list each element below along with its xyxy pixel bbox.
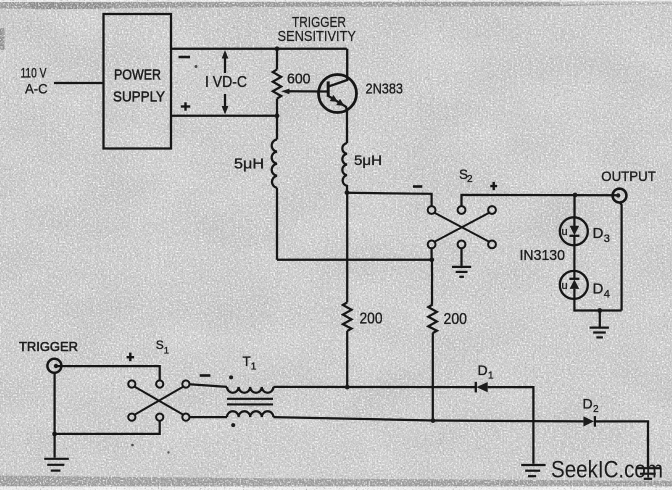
wire: S2 center to ground [460, 249, 462, 266]
label minus (S1 right) [200, 374, 211, 377]
svg-text:200: 200 [360, 311, 383, 328]
switch S1 crossover contacts [128, 380, 189, 420]
wire: negative output bus (top) [171, 48, 347, 50]
svg-text:1: 1 [251, 362, 257, 373]
potentiometer R 600 [273, 49, 281, 140]
label D3 [593, 225, 610, 245]
svg-text:D: D [593, 225, 604, 242]
svg-text:A-C: A-C [25, 82, 48, 97]
svg-text:3: 3 [604, 233, 610, 245]
svg-text:D: D [478, 362, 488, 378]
resistor R1 200 (left) [343, 193, 352, 388]
diode D1 [476, 382, 488, 393]
label D2 [583, 396, 600, 415]
svg-text:1: 1 [488, 371, 494, 382]
switch S2 crossover contacts [428, 206, 496, 248]
svg-text:D: D [583, 396, 593, 412]
stray ink speck [131, 444, 134, 447]
wire: D2 to ground leg [595, 421, 648, 467]
svg-text:OUTPUT: OUTPUT [601, 168, 656, 184]
wire: AC input to power supply [54, 82, 104, 84]
wire: S1 to T1 primary bottom [189, 416, 227, 418]
power supply box U-PS [104, 14, 172, 149]
bottom edge scan smudge [0, 476, 672, 488]
svg-text:110 V: 110 V [21, 66, 47, 81]
wire: D1 to ground leg [488, 387, 534, 464]
inductor L2 5uH (right) [342, 143, 347, 193]
transistor Q1 2N383 [319, 49, 357, 143]
terminal: TRIGGER input [47, 359, 61, 373]
transformer T1 secondary winding [227, 411, 273, 417]
resistor R2 200 (right) [428, 260, 437, 421]
label plus (S2 right) [490, 182, 497, 190]
ground (clipper) [590, 328, 609, 338]
terminal: OUTPUT [613, 189, 627, 203]
inductor L1 5uH (left) [272, 140, 277, 260]
wire: positive output bus (bottom) [171, 115, 277, 117]
svg-text:4: 4 [604, 288, 610, 300]
wire: S2 positive pole to output [462, 195, 619, 206]
node: pot top junction [275, 46, 280, 51]
svg-text:IN3130: IN3130 [520, 247, 566, 264]
label plus (PS bottom) [181, 102, 190, 110]
svg-text:5μH: 5μH [354, 152, 382, 168]
svg-text:TRIGGER: TRIGGER [19, 339, 78, 354]
wire: clipper branch upper [573, 195, 575, 217]
node: emitter bus junction [345, 190, 350, 195]
svg-text:S: S [156, 338, 164, 352]
label TRIGGER SENSITIVITY [278, 14, 357, 45]
svg-text:T: T [243, 354, 251, 369]
label D4 [593, 280, 610, 300]
wire: emitter bus to S2 [347, 193, 432, 207]
svg-text:5μH: 5μH [234, 157, 264, 173]
wire: trigger to S1 [56, 366, 160, 380]
svg-text:D: D [593, 280, 604, 297]
svg-text:2: 2 [467, 174, 473, 185]
1VD-C measurement arrow [222, 50, 229, 115]
ground (S2) [452, 267, 471, 277]
wire: T1 bottom bus [273, 417, 583, 421]
transformer T1 core [227, 399, 273, 405]
ground (trigger) [44, 459, 69, 471]
node: output bus junction [573, 193, 578, 198]
ground (D2) [636, 468, 660, 479]
node: left 200 junction [345, 385, 350, 390]
svg-text:u: u [562, 280, 568, 292]
svg-text:SENSITIVITY: SENSITIVITY [278, 28, 357, 45]
label D1 [478, 362, 495, 381]
svg-text:POWER: POWER [114, 68, 161, 84]
svg-text:u: u [562, 226, 568, 238]
wire: trigger terminal down [53, 373, 55, 458]
phase dot (bottom) [231, 423, 235, 427]
node: right 200 junction [431, 418, 436, 423]
node: S2 stub junction [429, 257, 434, 262]
svg-text:I VD-C: I VD-C [205, 74, 247, 91]
wire: T1 top to D1 [273, 386, 475, 388]
svg-text:SUPPLY: SUPPLY [113, 90, 165, 106]
left edge mark [0, 28, 5, 50]
wire: S2 lower-left stub [430, 249, 432, 260]
wire: trigger ground bus to S1 [55, 421, 160, 434]
label plus (S1) [127, 353, 134, 362]
diode D2 [583, 416, 595, 427]
top edge scan smudge [0, 0, 672, 2]
svg-text:1: 1 [164, 345, 169, 356]
wire: between D3 and D4 [573, 245, 575, 271]
label T1 [243, 354, 257, 373]
ground (D1) [521, 465, 545, 476]
label S2 [459, 167, 473, 185]
wire: output down leg [620, 202, 622, 310]
svg-text:200: 200 [444, 311, 468, 328]
label S1 [156, 338, 169, 356]
svg-text:2: 2 [593, 404, 599, 415]
svg-text:600: 600 [287, 71, 311, 88]
node: clipper ground junction [597, 308, 602, 313]
label minus (PS top) [179, 56, 191, 59]
svg-text:2N383: 2N383 [366, 81, 404, 98]
svg-text:SeekIC.com: SeekIC.com [551, 457, 663, 484]
pot wiper arrow to transistor base [281, 89, 328, 95]
transformer T1 primary winding [227, 387, 273, 393]
node: pot bottom junction [275, 113, 280, 118]
wire: S1 to T1 primary top [189, 384, 227, 387]
wire: clipper bottom [574, 299, 621, 311]
diode D3 (tunnel diode, circled) [560, 217, 588, 245]
label 110 V A-C [21, 66, 48, 97]
wire: to ground [599, 311, 601, 327]
node: trigger ground junction [52, 432, 57, 437]
stray ink speck [195, 65, 198, 68]
diode D4 (tunnel diode, circled) [560, 271, 588, 299]
stray ink speck [167, 451, 169, 453]
wire: cross bus from L1 to S2 stub [277, 259, 432, 261]
label minus (S2 left) [413, 185, 422, 188]
phase dot (top) [229, 375, 233, 379]
